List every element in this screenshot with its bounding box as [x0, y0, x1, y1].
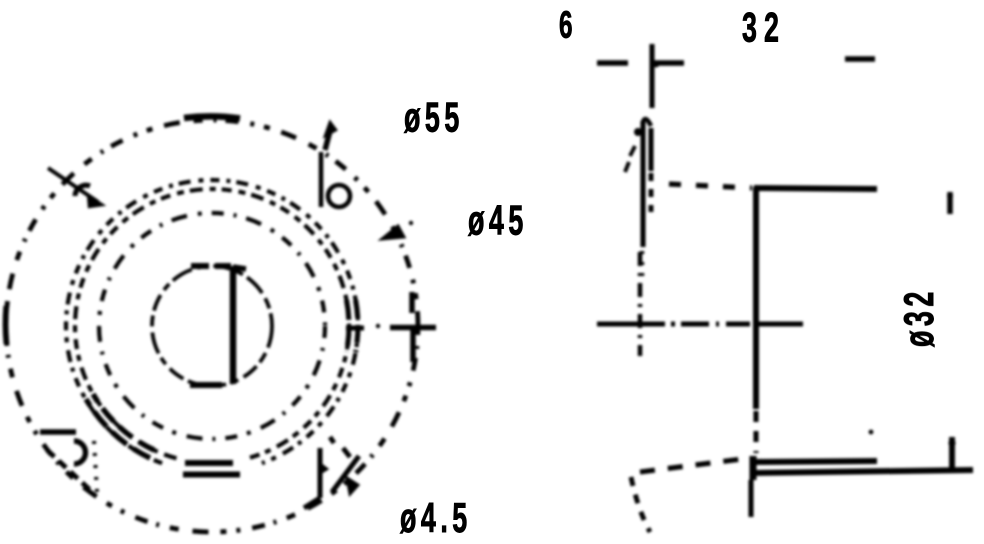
svg-text:ø4.5: ø4.5: [400, 495, 472, 541]
svg-text:ø45: ø45: [468, 198, 528, 244]
svg-text:ø55: ø55: [404, 95, 464, 141]
svg-text:6: 6: [559, 3, 577, 46]
svg-text:ø32: ø32: [896, 287, 942, 347]
svg-text:32: 32: [742, 5, 786, 51]
